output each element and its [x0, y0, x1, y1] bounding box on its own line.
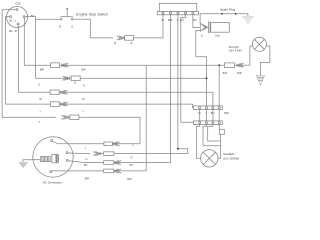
r2 wire right — [99, 153, 188, 155]
bar1 pin2 — [205, 107, 207, 109]
generator pin r2 — [66, 152, 68, 154]
junction dot r2 — [177, 148, 179, 150]
block pin 5 — [192, 12, 194, 14]
svg-text:G: G — [74, 80, 76, 84]
generator pin r3 — [66, 159, 68, 161]
r1 wire to Y row vertical — [113, 143, 141, 145]
wire stop switch to connector pin B — [73, 15, 163, 38]
wire CDI top pin to left edge down to Y row — [2, 10, 56, 118]
svg-text:AC Generator: AC Generator — [43, 181, 62, 185]
coil core bars — [208, 21, 210, 33]
svg-text:G: G — [38, 83, 40, 87]
B/R bottom vertical (tail light feed from generator r4) — [145, 65, 147, 171]
G2 row wire to coil ground junction — [80, 77, 206, 79]
coil secondary wire down to bar1 pin2 — [196, 30, 207, 106]
bar2 pin3 — [212, 122, 214, 124]
CDI pin bottom — [17, 23, 19, 25]
svg-text:Coil: Coil — [215, 34, 220, 38]
svg-text:Y: Y — [39, 109, 41, 113]
bar1 pin3 — [212, 107, 214, 109]
svg-text:B/Y: B/Y — [84, 163, 88, 167]
resistor square — [219, 129, 224, 134]
wire square down to headlight right — [218, 134, 221, 158]
svg-text:Headlight: Headlight — [223, 152, 234, 156]
svg-text:Engine Stop Switch: Engine Stop Switch — [76, 12, 108, 16]
r3 arrow — [114, 161, 122, 165]
W row arrow — [60, 102, 68, 106]
r4 wire right to B/R vertical — [114, 170, 146, 172]
engine stop switch contact G — [71, 18, 73, 20]
headlight wire pin3 down — [208, 124, 221, 141]
generator r2 wire — [68, 152, 90, 155]
generator ground wire — [23, 160, 33, 163]
wire bar2 pin4 to resistor square — [218, 124, 220, 129]
wires between bars — [200, 109, 220, 121]
svg-text:Y: Y — [85, 146, 87, 150]
svg-text:BL - L: BL - L — [9, 18, 16, 22]
svg-text:Tail Light: Tail Light — [229, 45, 240, 49]
main connector block body — [159, 3, 197, 11]
main connector block pin row — [157, 12, 198, 15]
svg-text:B: B — [114, 41, 116, 45]
lower inline connector bar2 — [193, 121, 222, 125]
svg-text:(12V 30/30W): (12V 30/30W) — [223, 156, 239, 160]
engine stop switch stem — [66, 10, 68, 17]
generator r1 wire — [53, 141, 104, 144]
r4 arrow — [114, 169, 122, 173]
tail light left lead — [250, 46, 253, 65]
bar2 pin4 — [218, 122, 220, 124]
block pin 2 — [169, 12, 171, 14]
CDI pin top — [16, 9, 18, 11]
row A arrow left-pointing — [61, 63, 69, 67]
r3 connector rect — [104, 161, 114, 165]
generator pin top — [51, 140, 53, 142]
tail light right lead to ground — [260, 46, 270, 75]
spark plug HT wire — [200, 14, 248, 24]
svg-text:(12V 3.4W): (12V 3.4W) — [229, 49, 242, 53]
r3 wire right to block pin2 vertical — [114, 162, 170, 164]
svg-text:B/R: B/R — [237, 71, 241, 75]
block pin 3 — [177, 12, 179, 14]
G row arrow — [60, 90, 68, 94]
transformer primary rectangle — [52, 154, 56, 162]
svg-text:B/L: B/L — [31, 14, 36, 18]
junction dot coil ground — [206, 77, 208, 79]
r2 arrow right-pointing — [93, 152, 101, 156]
svg-text:G: G — [201, 34, 203, 38]
svg-text:B/R: B/R — [40, 67, 44, 71]
block pin 4 — [184, 12, 186, 14]
svg-text:B/R: B/R — [127, 177, 131, 181]
G row wire to bar1 pin3 — [59, 92, 213, 106]
Y row connector rect — [70, 115, 79, 120]
generator r3 wire — [68, 161, 104, 163]
row A wire to tail light area — [60, 64, 225, 66]
wire CDI right pin to stop switch and down to B/R row — [25, 17, 71, 79]
coil body — [211, 23, 230, 33]
svg-text:Y: Y — [39, 120, 41, 124]
Y row wire to generator r1 — [67, 117, 140, 144]
connector rect B — [125, 36, 134, 41]
HT wire dot 2 — [235, 13, 237, 15]
ignition coil triangle — [200, 23, 207, 31]
engine stop switch contact E — [60, 18, 62, 20]
generator ground symbol — [19, 162, 27, 164]
engine stop switch knob — [66, 8, 68, 10]
svg-text:Y: Y — [82, 109, 84, 113]
tail light ground symbol — [256, 75, 265, 85]
row A connector rect right — [225, 63, 235, 68]
svg-text:B/R: B/R — [223, 71, 227, 75]
bar2 pin2 — [205, 122, 207, 124]
headlight X — [203, 152, 215, 164]
r1 connector rect — [104, 142, 113, 146]
engine stop switch bar — [60, 16, 73, 18]
headlight feed wire left — [196, 124, 200, 158]
svg-text:B/R: B/R — [85, 176, 89, 180]
r1 arrow — [112, 142, 120, 146]
tail light bulb — [252, 37, 266, 51]
W row wire to bar1 left end — [59, 104, 193, 108]
wire block pin3 down to junction and r2 row — [178, 15, 188, 154]
generator transformer bars — [55, 154, 58, 163]
svg-text:B/R: B/R — [81, 67, 85, 71]
wire block pin2 down to r3 row — [169, 15, 171, 163]
CDI pin left — [10, 16, 12, 18]
generator coil winding — [33, 159, 40, 161]
HT wire dot 1 — [221, 13, 223, 15]
svg-text:BL - R: BL - R — [9, 29, 17, 33]
bar2 pin1 — [199, 122, 201, 124]
bar1 pin1 — [199, 107, 201, 109]
tail light X — [254, 39, 264, 49]
wire CDI right pin down to G2 row — [24, 18, 50, 66]
generator pin bottom — [50, 171, 52, 173]
svg-text:Spark Plug: Spark Plug — [220, 8, 235, 12]
wire block pin4 down to lower bar left end — [181, 15, 194, 123]
connector arrow B — [117, 36, 125, 40]
headlight wire pin2 down — [203, 124, 221, 146]
svg-text:G: G — [86, 157, 88, 161]
r4 connector rect — [104, 169, 114, 173]
svg-text:B/Y: B/Y — [129, 163, 133, 167]
AC generator circle — [33, 137, 73, 177]
junction dot B/R headlight feed — [218, 64, 220, 66]
CDI pin right — [23, 16, 25, 18]
block pin 1 — [162, 12, 164, 14]
svg-text:B: B — [131, 41, 133, 45]
row A connector rect — [51, 63, 60, 68]
upper inline connector bar1 — [193, 106, 222, 110]
svg-text:G: G — [71, 25, 73, 29]
bar1 pin4 — [218, 107, 220, 109]
wire to tail light — [234, 64, 250, 66]
generator r4 wire — [52, 170, 104, 172]
Y row arrow right-pointing — [61, 115, 69, 119]
wire CDI left pin to left edge down to W row — [6, 17, 51, 105]
wire block pin5 to coil — [193, 15, 200, 28]
headlight circle — [201, 150, 218, 167]
svg-text:B/R: B/R — [224, 111, 228, 115]
CDI connector circle — [7, 7, 28, 28]
svg-text:B: B — [162, 18, 164, 22]
svg-text:B/Y: B/Y — [193, 18, 197, 22]
svg-text:G: G — [131, 155, 133, 159]
wire CDI bottom pin down to G row — [18, 25, 50, 93]
G2 row connector rect — [71, 76, 80, 81]
spark plug symbol — [242, 16, 254, 18]
G2 row arrow right-pointing — [62, 76, 70, 80]
row A arrow at tail light — [237, 63, 245, 67]
W row connector rect — [50, 102, 59, 107]
svg-text:G: G — [83, 83, 85, 87]
transformer secondary winding — [58, 154, 59, 162]
svg-text:E: E — [59, 25, 61, 29]
G row connector rect — [50, 90, 59, 95]
r2 connector rect — [104, 152, 114, 156]
svg-text:CDI: CDI — [15, 2, 20, 6]
wire B/R junction down to bar1 pin4 — [218, 65, 220, 106]
